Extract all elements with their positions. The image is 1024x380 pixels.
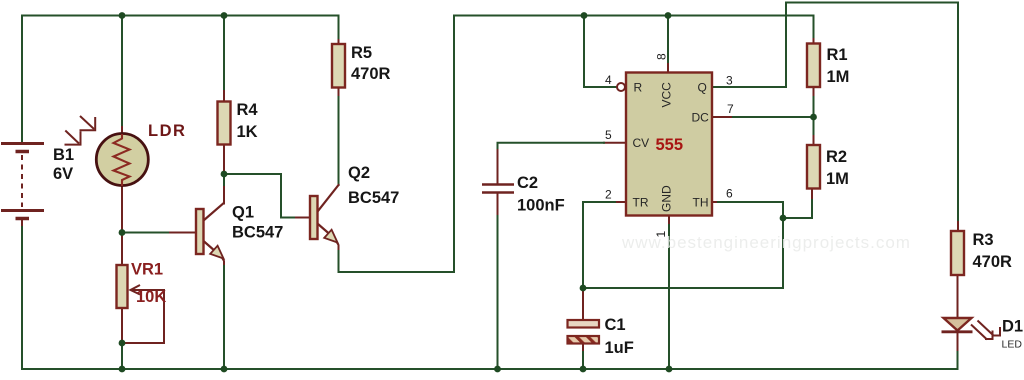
svg-text:DC: DC — [692, 111, 710, 125]
wire R4 top lead from rail — [223, 16, 225, 92]
node gnd-C2 — [494, 366, 501, 373]
svg-text:TH: TH — [693, 196, 709, 210]
svg-text:2: 2 — [605, 188, 612, 202]
wire battery negative red stub — [21, 220, 23, 227]
wire VR1 bottom to ground rail — [121, 343, 123, 369]
wire C1 bottom to ground rail — [582, 344, 584, 353]
node D R1-R2-pin7 — [810, 114, 817, 121]
wire R5 bottom lead to Q2 collector — [338, 40, 340, 44]
wire C2 red stubs — [497, 150, 499, 216]
svg-text:Q: Q — [698, 81, 707, 95]
wire Q2 emitter to 555 supply rail — [339, 16, 455, 273]
svg-text:C1: C1 — [605, 316, 626, 334]
svg-text:VR1: VR1 — [131, 261, 163, 279]
svg-text:C2: C2 — [517, 174, 538, 192]
LED light arrow 1 — [971, 325, 993, 340]
node gnd-C1 — [580, 366, 587, 373]
wire node D to R2 top — [813, 117, 815, 136]
svg-text:Q1: Q1 — [232, 204, 254, 222]
wire pin4 reset to VCC rail — [584, 16, 618, 88]
svg-text:D1: D1 — [1002, 318, 1023, 336]
svg-text:R: R — [634, 81, 643, 95]
wire Q2 emitter bend — [336, 241, 339, 251]
svg-text:www.bestengineeringprojects.co: www.bestengineeringprojects.com — [621, 233, 911, 252]
wire pin6 TH to node C — [712, 201, 718, 203]
LDR body — [96, 134, 148, 186]
svg-text:1M: 1M — [827, 68, 850, 86]
wire VR1 wiper link down — [163, 290, 165, 343]
svg-text:470R: 470R — [973, 253, 1013, 271]
svg-text:CV: CV — [633, 136, 650, 150]
wire top-left VCC rail from battery to R5 — [22, 16, 339, 144]
node VR1 wiper join — [119, 340, 126, 347]
resistor R3 — [951, 231, 964, 275]
svg-text:5: 5 — [605, 128, 612, 142]
svg-text:4: 4 — [605, 73, 612, 87]
LED D1 — [942, 318, 973, 332]
wire node C to node B link — [583, 218, 783, 288]
battery B1 — [1, 144, 44, 219]
transistor Q1 — [196, 203, 224, 259]
svg-text:1uF: 1uF — [605, 339, 634, 357]
svg-text:VCC: VCC — [660, 82, 674, 108]
node gnd-VR1 — [119, 366, 126, 373]
node rail-R4 — [221, 12, 228, 19]
wire Q1 base from node A — [122, 232, 170, 234]
svg-text:8: 8 — [655, 53, 669, 60]
node gnd-pin1 — [666, 366, 673, 373]
wire VR1 wiper link left to bottom lead — [122, 342, 164, 344]
svg-text:LDR: LDR — [148, 122, 186, 140]
wire battery negative to bottom rail — [21, 227, 23, 369]
svg-text:GND: GND — [660, 185, 674, 212]
node vcc-pin4 — [581, 12, 588, 19]
VR1 wiper arrow — [131, 285, 165, 295]
wire VCC rail to R1 — [454, 16, 814, 40]
svg-text:B1: B1 — [53, 146, 74, 164]
svg-text:TR: TR — [633, 196, 649, 210]
svg-text:R4: R4 — [237, 101, 259, 119]
svg-text:Q2: Q2 — [348, 164, 370, 182]
wire pin5 CV to C2 — [604, 142, 626, 144]
wire R1 bottom to node D — [813, 97, 815, 117]
node C TH-R2 — [780, 215, 787, 222]
wire pin2 TR to node B — [615, 201, 626, 203]
IC U1 555 timer body — [626, 73, 712, 216]
LDR light arrow 2 — [65, 131, 81, 145]
wire LDR top lead from rail — [121, 16, 123, 128]
wire pin7 DC to R1-R2 node — [712, 116, 733, 118]
capacitor C2 — [482, 185, 514, 193]
wire Q1 emitter bend — [222, 257, 225, 266]
node rail-LDR — [119, 12, 126, 19]
svg-text:3: 3 — [726, 74, 733, 88]
svg-text:BC547: BC547 — [232, 224, 283, 242]
wire pin1 GND to ground rail — [668, 216, 670, 226]
wire node C to R2 bottom — [783, 198, 812, 218]
wire Q1 collector vertical — [223, 174, 225, 187]
svg-text:10K: 10K — [136, 288, 166, 306]
resistor R1 — [807, 44, 820, 88]
wire pin3 Q output over the top to R3 — [712, 3, 958, 223]
svg-text:BC547: BC547 — [348, 189, 399, 207]
node B TR-C1 — [580, 285, 587, 292]
svg-text:6: 6 — [726, 187, 733, 201]
svg-text:470R: 470R — [351, 65, 391, 83]
node A LDR-VR1-base — [119, 229, 126, 236]
node vcc-pin8 — [665, 12, 672, 19]
wire Q2 base red stub — [296, 217, 310, 219]
wire VR1 bottom lead — [121, 308, 123, 343]
node gnd-Q1 emitter — [221, 366, 228, 373]
wire R1 red stubs — [813, 39, 815, 97]
wire R4 red stubs — [223, 91, 225, 174]
svg-text:1M: 1M — [826, 170, 849, 188]
wire C2 bottom to ground rail — [497, 216, 499, 369]
svg-text:R5: R5 — [351, 44, 372, 62]
svg-text:R1: R1 — [827, 46, 848, 64]
svg-text:6V: 6V — [53, 165, 73, 183]
svg-text:1K: 1K — [237, 123, 258, 141]
wire LDR top red stub — [121, 127, 123, 134]
svg-text:100nF: 100nF — [517, 197, 565, 215]
wire LDR bottom lead to node A — [121, 186, 123, 233]
svg-text:555: 555 — [656, 136, 684, 154]
wire node B to C1 — [582, 288, 584, 320]
wire Q1 base red stub — [170, 232, 196, 234]
svg-text:R2: R2 — [826, 148, 847, 166]
svg-text:R3: R3 — [973, 231, 994, 249]
wire pin8 VCC lead — [667, 16, 669, 65]
resistor R4 — [218, 102, 231, 145]
wire node A to Q2 base route — [224, 174, 296, 218]
wire node A to VR1 top — [121, 233, 123, 266]
pin 4 reset bubble — [617, 83, 625, 91]
resistor R2 — [807, 145, 820, 189]
wire bottom ground rail — [22, 368, 958, 370]
wire Q1 emitter to ground rail — [223, 266, 225, 369]
LDR zigzag — [114, 134, 130, 186]
wire R3 red stubs — [957, 222, 960, 318]
svg-text:7: 7 — [727, 102, 734, 116]
transistor Q2 — [310, 196, 338, 243]
svg-text:LED: LED — [1002, 339, 1023, 351]
capacitor C1 polarized — [568, 320, 600, 344]
wire Q2 collector diagonal — [318, 185, 339, 211]
LDR light arrow 1 — [80, 116, 96, 130]
potentiometer VR1 body — [117, 265, 128, 308]
resistor R5 — [332, 44, 345, 88]
wire LED cathode down — [957, 333, 959, 352]
node R4-Q1 collector — [221, 171, 228, 178]
LED light arrow 2 — [978, 321, 1001, 336]
